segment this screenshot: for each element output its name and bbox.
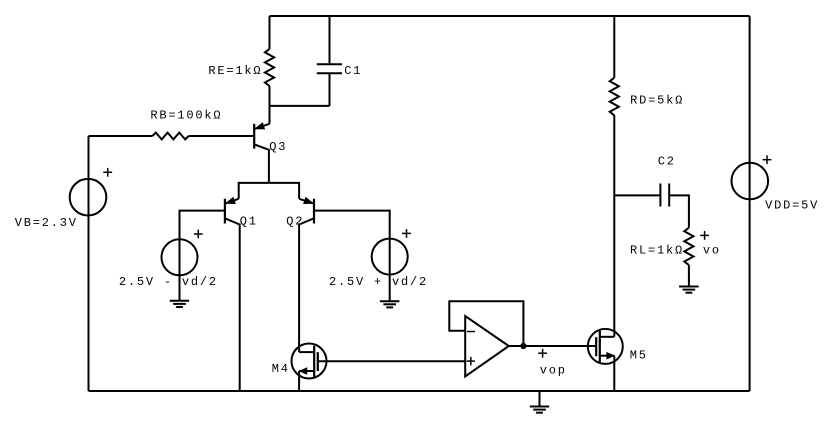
wire RE top xyxy=(269,16,271,49)
resistor RB xyxy=(152,133,188,140)
wire node RE-C1 bottom xyxy=(270,105,330,107)
wire Q1 base to source xyxy=(180,211,225,240)
mosfet M5 gate bar xyxy=(595,337,597,356)
label M5 xyxy=(630,349,648,363)
label VB=2.3V xyxy=(15,216,78,230)
label C2 xyxy=(658,155,676,169)
transistor Q2 base bar xyxy=(313,199,315,224)
ground bottom rail xyxy=(530,391,549,413)
mosfet M5 body xyxy=(588,329,623,364)
plus sign V1 xyxy=(194,230,203,239)
transistor Q2 emitter xyxy=(299,198,313,204)
mosfet M5 drain lead xyxy=(600,336,615,338)
svg-text:VDD=5V: VDD=5V xyxy=(765,199,819,213)
op-amp minus input label xyxy=(467,331,475,333)
svg-text:RL=1kΩ: RL=1kΩ xyxy=(630,243,684,257)
svg-text:Q3: Q3 xyxy=(269,140,287,154)
capacitor C2 xyxy=(660,184,669,207)
wire C1 top stub xyxy=(329,16,331,64)
label Q2 xyxy=(286,215,304,229)
svg-text:C2: C2 xyxy=(658,155,676,169)
resistor RD xyxy=(610,78,619,116)
op-amp U1 triangle xyxy=(465,316,509,376)
wire RE bottom xyxy=(269,86,271,124)
transistor Q1 emitter xyxy=(226,198,239,204)
svg-text:RB=100kΩ: RB=100kΩ xyxy=(150,109,222,123)
label 2.5V + vd/2 xyxy=(329,275,428,289)
mosfet M4 drain lead xyxy=(299,351,314,353)
mosfet M4 gate bar xyxy=(317,352,319,371)
svg-text:vop: vop xyxy=(540,364,567,378)
mosfet M4 channel bar xyxy=(313,346,315,378)
op-amp plus input label xyxy=(467,357,475,365)
label C1 xyxy=(344,64,362,78)
plus sign VB xyxy=(103,168,112,177)
wire C2 to RL xyxy=(669,195,689,227)
wire RL bottom xyxy=(688,265,690,287)
wire RD top xyxy=(613,16,615,78)
svg-text:2.5V + vd/2: 2.5V + vd/2 xyxy=(329,275,428,289)
svg-text:2.5V - vd/2: 2.5V - vd/2 xyxy=(119,275,218,289)
wire VB to RB xyxy=(89,135,153,137)
capacitor C1 xyxy=(317,64,342,73)
ground V1 xyxy=(170,301,189,307)
voltage source V1 (2.5V - vd/2) xyxy=(162,239,198,301)
svg-text:M5: M5 xyxy=(630,349,648,363)
transistor Q3 emitter xyxy=(255,123,269,129)
resistor RL xyxy=(684,228,693,265)
wire op-amp output xyxy=(509,345,596,347)
mosfet M5 source lead xyxy=(600,353,615,359)
resistor RE xyxy=(265,49,274,86)
wire op-amp feedback xyxy=(449,301,523,346)
wire to C2 xyxy=(614,194,660,196)
wire Q2 base to source xyxy=(314,211,390,239)
label + (vop) xyxy=(538,349,547,358)
voltage source VDD xyxy=(732,163,769,200)
mosfet M4 source lead xyxy=(299,368,314,374)
svg-text:Q2: Q2 xyxy=(286,215,304,229)
voltage source VB xyxy=(70,179,107,216)
mosfet M4 body xyxy=(292,344,327,379)
node output dot xyxy=(521,343,526,348)
wire M4 gate to op-amp + xyxy=(318,360,465,362)
wire RD to M5 drain xyxy=(613,115,615,336)
svg-text:C1: C1 xyxy=(344,64,362,78)
mosfet M5 channel bar xyxy=(599,331,601,363)
label RE=1k xyxy=(208,64,262,78)
plus sign VDD xyxy=(763,155,772,164)
label M4 xyxy=(272,362,290,376)
svg-text:RD=5kΩ: RD=5kΩ xyxy=(630,93,684,107)
voltage source V2 (2.5V + vd/2) xyxy=(372,239,408,302)
svg-text:RE=1kΩ: RE=1kΩ xyxy=(208,64,262,78)
label Q1 xyxy=(240,215,258,229)
svg-text:vo: vo xyxy=(703,243,721,257)
transistor Q1 collector xyxy=(226,219,240,391)
wire bottom rail xyxy=(89,390,750,392)
wire M4 source down xyxy=(298,371,300,391)
label 2.5V - vd/2 xyxy=(119,275,218,289)
label RL=1k xyxy=(630,243,684,257)
plus sign V2 xyxy=(402,229,411,238)
label vop xyxy=(540,364,567,378)
ground V2 xyxy=(380,301,400,307)
transistor Q3 collector xyxy=(255,145,269,183)
wire right VDD branch xyxy=(749,16,751,391)
wire RB to Q3 base xyxy=(189,135,254,137)
ground RL xyxy=(679,287,699,293)
wire emitter tee xyxy=(239,183,299,199)
transistor Q3 base bar xyxy=(253,124,255,149)
transistor Q1 base bar xyxy=(224,199,226,224)
wire C1 bottom stub xyxy=(329,73,331,106)
wire left VB branch xyxy=(88,136,90,391)
transistor Q2 collector xyxy=(299,219,313,353)
svg-text:Q1: Q1 xyxy=(240,215,258,229)
svg-text:VB=2.3V: VB=2.3V xyxy=(15,216,78,230)
plus sign vo xyxy=(700,231,709,240)
wire M5 source down xyxy=(613,356,615,391)
svg-text:M4: M4 xyxy=(272,362,290,376)
label RB=100k xyxy=(150,109,222,123)
wire top rail xyxy=(270,15,750,17)
label RD=5k xyxy=(630,93,684,107)
label vo xyxy=(703,243,721,257)
label VDD=5V xyxy=(765,199,819,213)
label Q3 xyxy=(269,140,287,154)
